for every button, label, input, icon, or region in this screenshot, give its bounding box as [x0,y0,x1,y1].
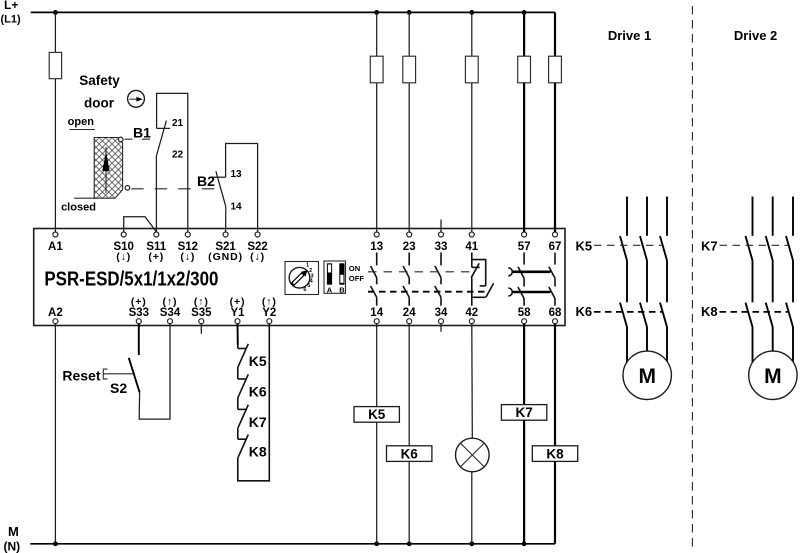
svg-text:41: 41 [465,241,478,253]
wire 42 to indicator lamp [471,324,474,439]
feedback NC contact K6 stub [237,367,239,379]
contact B2 blade [216,171,226,206]
svg-text:K7: K7 [515,405,532,420]
svg-text:67: 67 [549,241,562,253]
svg-text:A1: A1 [48,241,63,253]
terminal 14 [374,319,379,324]
svg-text:K7: K7 [249,414,267,430]
relay contact 33-34 mid stub [440,278,442,285]
terminal S34 [168,319,173,324]
relay contact 41-42 branch to second contact [472,260,486,286]
svg-text:OFF: OFF [349,274,365,283]
relay contact 23-24 first blade [403,266,409,278]
mech link door to B2 (dashed) [131,188,218,190]
svg-text:K8: K8 [546,446,564,461]
svg-text:(↓): (↓) [250,251,265,263]
relay contact 41-42 top stub [471,253,473,268]
terminal 34 open stub [440,324,442,332]
svg-text:34: 34 [435,307,448,319]
relay contact 41-42 bottom connector [472,296,486,298]
mech linkage row 1 (dashed) [368,271,470,273]
terminal 24 [407,319,412,324]
wire L+ rail to fuse F4 [471,12,473,56]
terminal S12 [185,232,190,237]
door leaf hatched symbol [94,138,122,199]
relay contact 41-42 fixed bar 1 [472,266,480,268]
junction dot M / K6 branch [407,541,412,546]
feedback NC contact K8 stub [237,428,239,439]
wire L+ rail to fuse F5 [523,12,525,56]
forced-guidance bar row 1 [512,270,551,273]
terminal Y2 [267,319,272,324]
contactor K5 main contact 3 blade [660,236,667,261]
drive 2 phase 2 supply stub [772,197,774,236]
door movement arrow [102,152,109,172]
svg-text:M: M [8,524,19,539]
drive 1 phase 2 wire to motor [646,327,648,351]
junction dot L+ / 41 branch [469,10,474,15]
wire L+ rail to fuse F3 [408,12,410,56]
junction dot M / A2 branch [53,541,58,546]
fuse F5 [518,56,531,83]
svg-text:6: 6 [303,287,306,293]
wire S33 to reset switch S2 [138,324,140,355]
door movement indicator line [105,147,107,193]
motor M (drive 2) [749,351,797,399]
terminal Y1 [235,319,240,324]
relay contact 33-34 lower stub [440,297,442,305]
wire M bottom rail [30,543,555,545]
wire fuse F6 to terminal [554,83,556,232]
contactor K5 main contact 2 blade [640,236,647,261]
svg-text:M: M [764,365,782,388]
relay contact 67-68 first blade [549,267,555,279]
junction dot M / lamp branch [469,541,474,546]
drive 1 phase 3 wire to motor [666,327,668,361]
door contact point open (to B1) [118,137,123,142]
door closed baseline [74,197,94,199]
contact B2 top stub and bridge to S22 [226,144,258,233]
wire Y1 down to feedback chain [237,324,239,345]
drive 1 phase 1 supply stub [626,197,628,236]
relay contact 41-42 fixed bar 2 [480,285,486,287]
svg-text:57: 57 [518,241,531,253]
svg-text:K6: K6 [401,446,419,461]
mech linkage K8 (dashed bold) [720,311,789,313]
relay contact 67-68 lower stub [554,299,556,306]
wire L+ to fuse F1 [54,12,56,52]
svg-text:(N): (N) [4,540,21,553]
drive 2 phase 1 mid stub [752,261,754,303]
wire B1 to S11 [155,156,157,232]
svg-text:open: open [68,116,95,128]
svg-text:Reset: Reset [62,368,100,384]
drive 2 phase 1 supply stub [752,197,754,236]
relay contact 57-58 upper stub [523,253,525,265]
svg-text:13: 13 [370,241,383,253]
wire L+ top rail [31,11,555,13]
wire L+ rail to fuse F2 [376,12,378,56]
svg-text:closed: closed [61,202,96,214]
relay contact 57-58 mid stub [523,278,525,286]
drive 2 phase 2 wire to motor [772,327,774,351]
svg-text:(+): (+) [148,251,164,263]
terminal 33 [439,232,444,237]
wire L+ rail to fuse F6 [554,12,556,56]
feedback NC contact K6 bar [238,378,246,380]
contactor coil K5 [376,324,378,407]
svg-text:A: A [327,286,333,295]
relay contact 13-14 upper stub [376,253,378,266]
terminal 34 [439,319,444,324]
terminal 58 [522,319,527,324]
door contact point closed (to B2) [125,186,130,191]
svg-text:L+: L+ [4,0,18,12]
svg-text:B1: B1 [133,125,151,141]
contactor coil K6 [408,324,410,446]
svg-text:K7: K7 [701,239,718,254]
relay contact 23-24 lower stub [408,297,410,305]
svg-text:(↑): (↑) [163,296,178,308]
feedback NC contact K7 stub [237,397,239,409]
svg-text:(↑): (↑) [194,296,209,308]
drive 1 phase 1 wire to motor [626,327,628,362]
svg-text:ON: ON [349,264,360,273]
svg-text:S34: S34 [160,307,181,319]
svg-text:S35: S35 [191,307,212,319]
wire fuse F5 to terminal [523,83,525,232]
svg-text:Safety: Safety [79,73,120,88]
contactor K6 main contact 2 blade [640,303,647,327]
svg-text:14: 14 [370,307,383,319]
drive 1 phase 2 supply stub [646,197,648,236]
wire feedback chain bottom return to Y2 [238,324,269,481]
wire A2 to M rail [54,324,56,544]
relay contact 67-68 upper stub [554,253,556,265]
svg-text:(+): (+) [230,296,246,308]
svg-text:58: 58 [518,307,531,319]
relay contact 13-14 first blade [371,266,377,278]
drive 2 phase 3 supply stub [792,197,794,236]
svg-text:PSR-ESD/5x1/1x2/300: PSR-ESD/5x1/1x2/300 [44,268,218,291]
svg-text:S33: S33 [129,307,149,319]
svg-text:K5: K5 [249,353,267,369]
contactor coil K7 [523,324,525,405]
wire fuse F2 to terminal [376,83,378,232]
terminal 13 [374,232,379,237]
terminal S11 [154,232,159,237]
contactor K5 main contact 1 blade [620,236,627,261]
terminal S35 [199,319,204,324]
relay contact 13-14 mid stub [376,278,378,285]
terminal A2 [53,319,58,324]
contactor K6 main contact 1 blade [620,303,627,327]
svg-text:door: door [84,95,115,110]
relay contact 33-34 second blade [435,286,441,297]
svg-text:Drive 2: Drive 2 [734,28,777,43]
svg-text:5: 5 [307,283,310,289]
motor M (drive 1) [623,351,671,399]
contactor K6 main contact 3 blade [660,303,667,327]
feedback NC contact K7 bar [238,408,246,410]
svg-text:K6: K6 [576,304,593,319]
drive 2 phase 3 wire to motor [792,327,794,362]
svg-text:A2: A2 [48,307,63,319]
icon actuation-direction circle with arrow [128,90,145,107]
feedback NC contact K6 blade [238,374,248,397]
feedback NC contact K8 blade [238,435,248,458]
junction dot L+ / A1 branch [53,10,58,15]
relay contact 33-34 first blade [435,266,441,278]
indicator lamp H1 [456,438,490,472]
svg-text:(↓): (↓) [180,251,195,263]
svg-text:K6: K6 [249,384,267,400]
junction dot L+ / 13 branch [374,10,379,15]
wire fuse F1 to A1 [54,79,56,232]
svg-text:Y2: Y2 [262,307,276,319]
terminal 57 [522,232,527,237]
terminal 33 open stub [440,220,442,233]
relay contact 13-14 lower stub [376,297,378,305]
drive 1 phase 1 mid stub [626,261,628,303]
svg-text:(↑): (↑) [262,296,277,308]
contact B1 blade [156,121,166,157]
feedback NC contact K5 bar [238,348,246,350]
contactor K8 main contact 3 blade [786,303,793,327]
svg-text:42: 42 [465,307,478,319]
svg-text:K8: K8 [249,444,267,460]
relay contact 41-42 lower stub [471,278,473,306]
svg-text:B2: B2 [197,173,215,189]
feedback NC contact K8 bar [238,438,246,440]
contactor K7 main contact 1 blade [746,236,753,261]
terminal 41 [469,232,474,237]
relay contact 57-58 lower stub [523,299,525,306]
mech linkage K5 (dashed) [594,244,663,246]
wire jumper S10 to S11 [124,217,156,232]
terminal S10 [121,232,126,237]
fuse F6 [549,56,562,83]
svg-text:K5: K5 [368,407,386,422]
mech linkage K7 (dashed) [720,244,789,246]
svg-text:B: B [339,286,345,295]
relay contact 23-24 mid stub [408,278,410,285]
svg-text:(+): (+) [131,296,147,308]
junction dot L+ / 57 branch [522,10,527,15]
terminal 68 [553,319,558,324]
contactor K8 main contact 1 blade [746,303,753,327]
relay contact 67-68 second blade [549,287,555,299]
mech linkage K6 (dashed bold) [594,311,663,313]
svg-text:14: 14 [231,202,243,213]
relay contact 41-42 second blade [486,283,494,297]
contact B1 top stub and bridge to S12 [157,93,188,232]
drive 1 phase 3 mid stub [666,261,668,303]
contactor coil K8 [554,324,556,446]
contactor K7 main contact 2 blade [766,236,773,261]
feedback NC contact K7 blade [238,405,248,428]
reset switch S2 blade [129,358,140,393]
junction dot M / K7 branch [522,541,527,546]
fuse F4 [465,56,478,83]
terminal 23 [407,232,412,237]
relay contact 57-58 first blade [518,267,524,279]
contact B2 fixed bar [213,176,226,178]
mech link door to B1 (dashed) [125,138,159,140]
wire fuse F4 to terminal [471,83,473,232]
svg-text:21: 21 [172,118,184,129]
svg-text:33: 33 [435,241,448,253]
svg-text:68: 68 [549,307,562,319]
relay contact 13-14 second blade [371,286,377,297]
svg-text:(↓): (↓) [116,251,131,263]
drive 1 phase 3 supply stub [666,197,668,236]
svg-text:(GND): (GND) [208,251,243,263]
feedback NC contact K5 blade [238,344,248,367]
svg-text:Drive 1: Drive 1 [608,28,651,43]
wire S2 to S34 (return) [139,324,170,419]
svg-text:K8: K8 [701,304,718,319]
relay contact 41-42 first blade [471,263,479,277]
feedback NC contact K5 stub [237,345,239,349]
drive 2 phase 3 mid stub [792,261,794,303]
svg-text:22: 22 [172,150,184,161]
terminal 42 [469,319,474,324]
svg-text:M: M [638,365,656,388]
svg-text:23: 23 [403,241,416,253]
mech linkage row 2 (dashed bold) [368,291,486,293]
svg-text:S2: S2 [110,380,127,396]
relay contact 23-24 upper stub [408,253,410,266]
junction dot M / K5 branch [374,541,379,546]
drive 2 phase 2 mid stub [772,261,774,303]
wire indicator lamp to M rail [471,472,473,544]
relay contact 33-34 upper stub [440,253,442,266]
DIP switch A/B [324,261,346,293]
relay contact 57-58 second blade [518,287,524,299]
svg-text:(L1): (L1) [1,13,22,25]
svg-text:24: 24 [403,307,416,319]
junction dot L+ / 23 branch [407,10,412,15]
drive 1 phase 2 mid stub [646,261,648,303]
fuse F2 [370,56,383,83]
svg-text:K5: K5 [576,239,593,254]
contactor K8 main contact 2 blade [766,303,773,327]
terminal 67 [553,232,558,237]
fuse F1 [49,52,61,78]
wire fuse F3 to terminal [408,83,410,232]
svg-text:Y1: Y1 [230,307,245,319]
relay contact 67-68 mid stub [554,278,556,286]
pushbutton actuator S2 [103,369,107,379]
svg-text:13: 13 [231,169,243,180]
terminal S35 open stub [200,324,202,334]
rotary selector switch [285,262,319,295]
terminal A1 [53,232,58,237]
fuse F3 [403,56,416,83]
terminal S33 [136,319,141,324]
wire B2 to S21 [225,207,227,232]
separator Drive1/Drive2 (dashed) [691,6,693,547]
drive 2 phase 1 wire to motor [752,327,754,362]
contact B1 fixed bar [157,127,170,129]
safety relay U1 PSR-ESD body [34,229,565,326]
terminal S21 [223,232,228,237]
contactor K7 main contact 3 blade [786,236,793,261]
relay contact 23-24 second blade [403,286,409,297]
terminal S22 [255,232,260,237]
forced-guidance bar row 2 [512,291,551,294]
